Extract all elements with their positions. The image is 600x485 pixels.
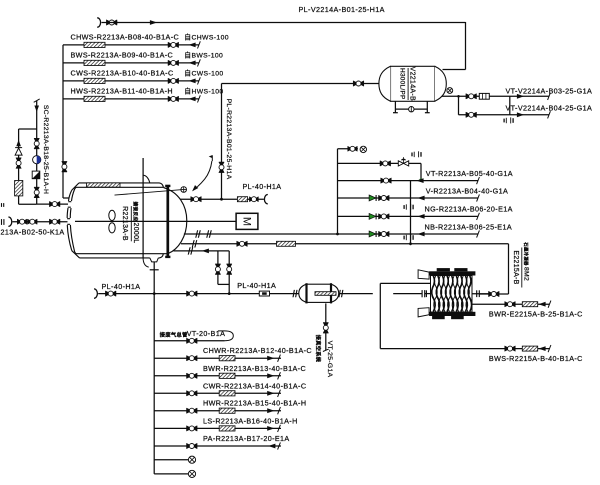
wire drain stub 1 (154, 459, 188, 461)
svg-text:自CWS-100: 自CWS-100 (184, 69, 223, 78)
wire NG line (338, 215, 479, 217)
reactor temperature instrument (181, 187, 187, 193)
spec break branch 2 (412, 151, 421, 157)
wire NB line (184, 233, 478, 235)
svg-text:VT-V2214A-B03-25-G1A: VT-V2214A-B03-25-G1A (506, 86, 593, 95)
valve LS (187, 426, 198, 431)
valve V-B04 (379, 195, 390, 200)
V2214A level instrument (447, 88, 453, 94)
wire return line HWR (154, 410, 281, 412)
flow arrow NB (417, 232, 424, 237)
end tick CWS-100 (198, 77, 201, 84)
condenser right nozzle (472, 293, 489, 295)
wire gas manifold header (337, 149, 339, 234)
flow arrow SC down (34, 106, 39, 113)
V2214A legs and drain header (394, 101, 396, 112)
end tick VT-25 (323, 349, 329, 351)
valve BWS (505, 346, 516, 351)
svg-text:接真空系统: 接真空系统 (314, 335, 322, 363)
svg-text:2000L: 2000L (132, 223, 139, 244)
valve on vent B04 (466, 112, 477, 117)
end tick PA (278, 442, 281, 449)
check valve NB (369, 231, 376, 237)
svg-text:搪瓷反应: 搪瓷反应 (132, 202, 139, 222)
vent cap instrument (360, 146, 366, 152)
insulation CHWR (219, 356, 235, 361)
spec break NG (404, 204, 413, 210)
wire feed drop at right (465, 22, 467, 70)
end tick CHWS-100 (198, 41, 201, 48)
flow arrow from HWS-100 (188, 97, 195, 102)
svg-text:VT-25-G1A: VT-25-G1A (326, 341, 333, 378)
svg-text:R2213A-B: R2213A-B (121, 206, 128, 241)
valve NB (379, 231, 390, 236)
insulation symbol on CWS (84, 78, 105, 83)
drain cap 1 (188, 456, 195, 463)
wire vent header connector (509, 96, 511, 115)
strainer on SC line (32, 171, 40, 179)
valve CWR (187, 391, 198, 396)
svg-text:BWR-R2213A-B13-40-B1A-C: BWR-R2213A-B13-40-B1A-C (203, 364, 306, 373)
insulation symbol on BWS (84, 60, 105, 65)
hose coupling on feed line (97, 18, 100, 27)
reactor thermo diagonal (115, 190, 182, 195)
flow arrow from CHWS-100 (188, 43, 195, 48)
valve drain loop left (215, 264, 220, 275)
wire V2214A bottom outlet (442, 95, 459, 97)
wire utility line CWS (63, 80, 199, 82)
hose coupling end (264, 195, 267, 204)
end tick CHWR (278, 355, 281, 362)
junction dot manifold-NB (336, 233, 339, 236)
wire reactor feed nozzle (180, 198, 221, 200)
svg-text:接废气总管: 接废气总管 (160, 331, 188, 339)
wire hose station (222, 198, 264, 200)
wire BWS riser (379, 283, 381, 348)
svg-text:LS-R2213A-B16-40-B1A-H: LS-R2213A-B16-40-B1A-H (203, 416, 298, 425)
pump flange left (293, 290, 297, 297)
valve PA 3 (49, 219, 60, 224)
agitator shaft (75, 220, 236, 222)
insulation BWS (522, 346, 537, 351)
junction dot drain loop (228, 292, 231, 295)
wire top feed line PL-V2214A-B01 (102, 22, 119, 24)
svg-text:自HWS-100: 自HWS-100 (184, 87, 223, 96)
valve PA 1 (17, 219, 27, 224)
check valve NG (369, 213, 376, 219)
end tick CWR (278, 390, 281, 397)
svg-text:PA-R2213A-B17-20-E1A: PA-R2213A-B17-20-E1A (203, 434, 290, 443)
flow arrow BWR (267, 373, 274, 378)
svg-text:PL-V2214A-B01-25-H1A: PL-V2214A-B01-25-H1A (299, 5, 385, 14)
end tick HWR (278, 407, 281, 414)
svg-text:HWR-R2213A-B15-40-B1A-H: HWR-R2213A-B15-40-B1A-H (203, 399, 306, 408)
valve on BWS (168, 60, 179, 65)
condenser support brackets (418, 270, 429, 279)
wire vapor line (181, 243, 509, 245)
condenser bottom pads (432, 316, 445, 319)
end tick vent B03 (548, 93, 551, 100)
hose coupling PA line (8, 217, 11, 226)
end tick SC top (34, 99, 40, 102)
svg-text:PL-R2213A-B01-25-H1A: PL-R2213A-B01-25-H1A (225, 99, 232, 180)
vessel V2214A-B tag underline (407, 68, 409, 100)
end tick V-B04 (477, 194, 480, 201)
flow arrow SC bypass (16, 140, 21, 147)
flow arrow into reactor (202, 249, 209, 254)
flow arrow from CWS-100 (188, 79, 195, 84)
flow arrow vent B03 (517, 94, 524, 99)
wire utility line BWS (63, 62, 199, 64)
junction dot green (419, 179, 422, 182)
valve NG (379, 214, 390, 219)
valve on HWS (168, 96, 179, 101)
junction dot bottom outlet (153, 292, 156, 295)
insulation HWR (219, 408, 235, 413)
flame arrester on vent B03 (479, 93, 489, 99)
wire SC to jacket (37, 203, 68, 205)
wire utility line CHWS (63, 44, 199, 46)
svg-text:CHWR-R2213A-B12-40-B1A-C: CHWR-R2213A-B12-40-B1A-C (203, 346, 312, 355)
junction dot (220, 198, 223, 201)
reactor R2213A-B jacket outline (67, 183, 187, 258)
wire reactor bottom outlet (153, 262, 155, 294)
svg-text:V2214A-B: V2214A-B (409, 67, 416, 101)
flow arrow NG (417, 214, 424, 219)
svg-text:BWS-R2213A-B09-40-B1A-C: BWS-R2213A-B09-40-B1A-C (71, 51, 174, 60)
agitator motor M (236, 213, 258, 229)
valve on CWS (168, 78, 179, 83)
svg-text:CWR-R2213A-B14-40-B1A-C: CWR-R2213A-B14-40-B1A-C (203, 381, 306, 390)
svg-text:自CHWS-100: 自CHWS-100 (184, 33, 229, 42)
spec break under vent B04 (504, 117, 513, 123)
insulation symbol on HWS (84, 96, 105, 101)
flow arrow VT-B05 (416, 178, 423, 183)
valve on top feed line (106, 20, 117, 25)
valve on SC line upper (34, 138, 39, 149)
end tick BWS-100 (198, 59, 201, 66)
wire reactor drain loop (173, 250, 229, 252)
wire manifold branch 2 (338, 162, 399, 164)
end tick vent B04 (548, 111, 551, 118)
valve BWR (187, 373, 198, 378)
flange bottom outlet (150, 269, 159, 271)
insulation symbol on CHWS (84, 42, 105, 47)
reactor top insulation hatch (87, 183, 121, 187)
flange vapor line (192, 240, 196, 247)
wire VT-25 drop (325, 303, 327, 350)
wire VT-20 branch (154, 340, 224, 342)
relief valve on SC bypass (15, 148, 22, 155)
insulation LS (219, 426, 235, 431)
vessel V2214A-B shell (379, 66, 446, 101)
condenser top pads (437, 268, 450, 271)
wire vent-vapor connector (410, 181, 412, 244)
valve manifold branch 2 (380, 161, 391, 166)
wire PL-R2213A-B01 riser (221, 84, 223, 200)
end tick VT-B05 (477, 177, 480, 184)
pump P (inline magnetic pump) (299, 283, 339, 303)
valve VT-20 (187, 338, 198, 343)
valve hose station (249, 197, 258, 202)
flow arrow BWS (538, 346, 545, 351)
insulation symbol on SC bypass (15, 181, 23, 196)
condenser tag underline (521, 248, 523, 288)
flow arrow on top feed line (150, 20, 157, 25)
note flag (211, 155, 213, 161)
wire bottom manifold header (153, 294, 155, 474)
wire return line CWR (154, 392, 281, 394)
wire VT-B05 line (338, 180, 479, 182)
svg-text:E2215A-B: E2215A-B (512, 250, 519, 284)
valve condenser inlet (489, 291, 500, 296)
valve vapor line (237, 241, 248, 246)
valve on SC bypass (16, 158, 21, 169)
reactor glass-lined flange bar (166, 185, 169, 258)
svg-text:PL-40-H1A: PL-40-H1A (243, 182, 282, 191)
pump flange right (339, 290, 343, 297)
insulation CWR (219, 391, 235, 396)
svg-text:VT-V2214A-B04-25-G1A: VT-V2214A-B04-25-G1A (506, 104, 593, 113)
valve on vent B03 (466, 94, 477, 99)
inline sight glass (259, 291, 269, 296)
valve PA 2 (28, 219, 38, 224)
valve BWR (505, 302, 516, 307)
reactor bottom sump (150, 258, 159, 262)
svg-text:HWS-R2213A-B11-40-B1A-H: HWS-R2213A-B11-40-B1A-H (71, 87, 173, 96)
end tick BWR (548, 301, 551, 308)
flow arrow LS (267, 426, 274, 431)
wire return line BWR (154, 375, 281, 377)
reactor thermowell dip pipe (142, 158, 144, 258)
end tick LS (278, 425, 281, 432)
valve reactor feed nozzle (191, 197, 202, 202)
wire vent line B04 (459, 114, 550, 116)
flow arrow BWR (538, 302, 545, 307)
svg-text:BWR-E2215A-B-25-B1A-C: BWR-E2215A-B-25-B1A-C (489, 309, 583, 318)
insulation on hose station (237, 197, 247, 202)
check valve V-B04 (369, 195, 376, 201)
svg-text:CWS-R2213A-B10-40-B1A-C: CWS-R2213A-B10-40-B1A-C (71, 69, 174, 78)
wire main bottom line (98, 293, 343, 295)
condenser top flange (429, 271, 475, 275)
svg-text:NG-R2213A-B06-20-E1A: NG-R2213A-B06-20-E1A (425, 205, 513, 214)
flow arrow PA (268, 444, 275, 449)
insulation BWR (522, 302, 537, 307)
condenser bottom flange (429, 312, 475, 316)
valve on V2214A inlet (353, 81, 364, 86)
flow arrow from BWS-100 (188, 61, 195, 66)
wire into V2214A (363, 83, 379, 85)
wire manifold branch 1 (338, 148, 358, 150)
end tick NG (477, 213, 480, 220)
svg-text:BWS-R2215A-B-40-B1A-C: BWS-R2215A-B-40-B1A-C (489, 354, 583, 363)
relief valve PSV (398, 161, 408, 166)
svg-text:VT-R2213A-B05-40-G1A: VT-R2213A-B05-40-G1A (426, 169, 513, 178)
edge marks PA line (2, 203, 4, 225)
wire PA line (13, 221, 68, 223)
steam trap on SC line (33, 156, 41, 164)
condenser E2215A-B coil block (431, 276, 473, 313)
wire BWS line (380, 348, 549, 350)
svg-text:PL-40-H1A: PL-40-H1A (102, 282, 141, 291)
svg-text:H300L/PP: H300L/PP (398, 68, 405, 100)
flow arrow CWR (267, 391, 274, 396)
flow arrow vent B04 (517, 112, 524, 117)
svg-text:M: M (241, 217, 253, 226)
valve on SC line lower (34, 187, 39, 198)
valve VT-B05 (381, 178, 392, 183)
wire return line CHWR (154, 357, 281, 359)
valve on utility drop (62, 161, 67, 172)
end tick NB (477, 230, 480, 237)
wire vent line B03 (459, 95, 550, 97)
wire utility line HWS (63, 98, 199, 100)
wire SC bypass (19, 128, 37, 130)
svg-text:PA-R2213A-B02-50-K1A: PA-R2213A-B02-50-K1A (0, 227, 65, 236)
wire BWR line (472, 303, 550, 305)
svg-text:V-R2213A-B04-40-G1A: V-R2213A-B04-40-G1A (426, 187, 508, 196)
svg-text:自BWS-100: 自BWS-100 (184, 51, 223, 60)
curved leader arrow (197, 161, 212, 187)
hose coupling bottom line (94, 289, 97, 298)
flange on NB line (196, 230, 200, 237)
svg-text:NB-R2213A-B06-25-E1A: NB-R2213A-B06-25-E1A (425, 222, 513, 231)
wire utility header drop (62, 45, 64, 198)
wire SC line vertical (36, 101, 38, 205)
pump discharge flange at condenser (421, 290, 423, 297)
end tick BWR (278, 372, 281, 379)
end tick BWS (548, 345, 551, 352)
flow arrow V-B04 (417, 196, 424, 201)
valve VT-25 (323, 323, 328, 334)
flow arrow HWR (267, 408, 274, 413)
V2214A drain instrument circle (409, 107, 414, 112)
valve CHWR (187, 356, 198, 361)
svg-text:CHWS-R2213A-B08-40-B1A-C: CHWS-R2213A-B08-40-B1A-C (71, 33, 180, 42)
insulation vapor line (277, 241, 296, 246)
wire V-B04 line (338, 197, 479, 199)
drain cap 2 (188, 470, 195, 477)
end tick HWS-100 (198, 95, 201, 102)
condenser left nozzle flange (425, 290, 427, 297)
valve bottom line 1 (105, 291, 116, 296)
svg-text:PL-40-H1A: PL-40-H1A (237, 281, 276, 290)
valve drain loop right (227, 264, 232, 275)
spec break NB (404, 234, 413, 240)
svg-text:SC-R2213A-B18-25-B1A-H: SC-R2213A-B18-25-B1A-H (42, 105, 49, 194)
wire return line LS (154, 427, 281, 429)
valve HWR (187, 408, 198, 413)
wire return line PA (154, 445, 281, 447)
agitator blades (109, 210, 115, 220)
junction dot vent branch (457, 95, 460, 98)
svg-text:8M2: 8M2 (522, 267, 529, 281)
wire pump discharge (343, 293, 373, 295)
valve bottom line 2 (187, 291, 198, 296)
junction dot vapor (409, 242, 412, 245)
svg-text:石墨冷凝器: 石墨冷凝器 (522, 242, 529, 266)
valve PA (187, 443, 198, 448)
valve on CHWS (168, 42, 179, 47)
flange drain loop (188, 247, 192, 254)
wire drain stub 2 (154, 473, 188, 475)
valve manifold branch 1 (348, 146, 358, 151)
valve SC jacket inlet (49, 201, 60, 206)
reactor tag underline (130, 206, 132, 241)
insulation BWR (219, 373, 235, 378)
flow arrow CHWR (267, 356, 274, 361)
valve on PL riser (219, 162, 224, 173)
